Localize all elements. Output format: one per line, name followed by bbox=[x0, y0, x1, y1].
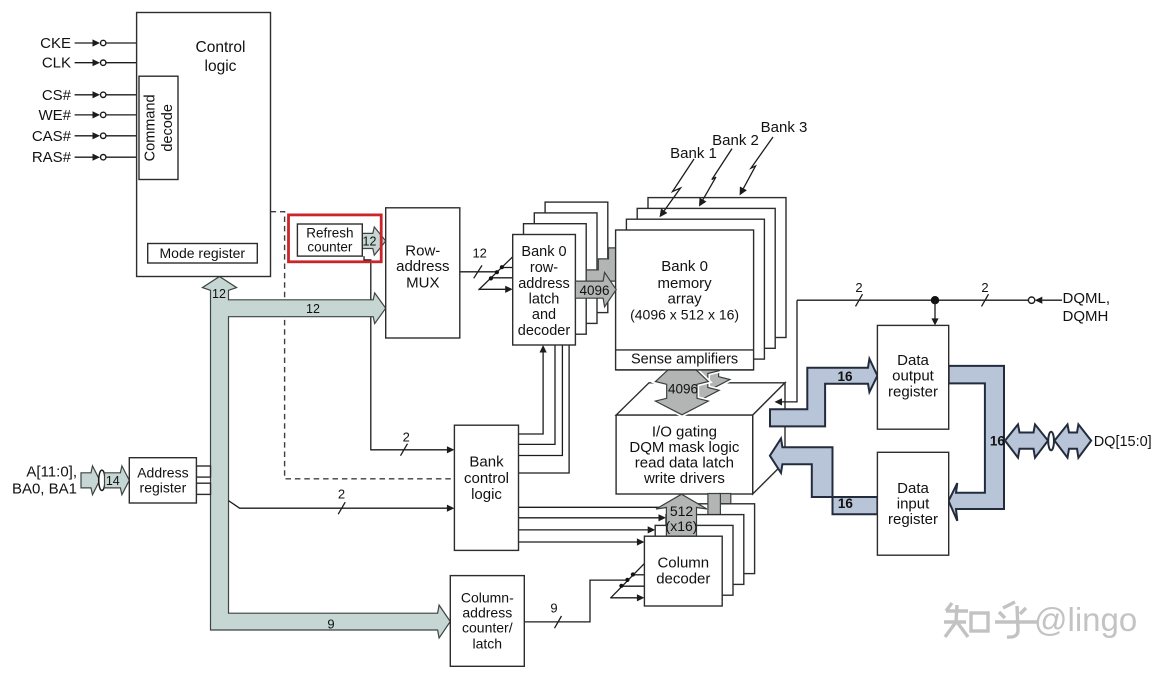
wire bank control to column decoder bank3 bbox=[519, 506, 673, 508]
wire 9-bit column counter to column fan bbox=[524, 580, 628, 622]
wire bank control to bank3 row latch bbox=[519, 345, 570, 473]
svg-text:address: address bbox=[462, 605, 512, 621]
svg-text:decoder: decoder bbox=[518, 323, 571, 339]
svg-text:Bank: Bank bbox=[469, 454, 504, 471]
svg-text:register: register bbox=[888, 511, 938, 528]
wire CAS# input bbox=[75, 132, 139, 139]
svg-text:memory: memory bbox=[658, 275, 713, 292]
address register box bbox=[129, 458, 196, 503]
Bank 1 callout bolt bbox=[664, 159, 694, 211]
row address fan: main 12 wire from MUX bbox=[460, 271, 497, 273]
teal 14 input arrow segment b into address register bbox=[105, 466, 130, 495]
svg-text:WE#: WE# bbox=[38, 107, 71, 124]
wire bank control to bank2 row latch bbox=[519, 345, 563, 456]
blue 16 bus data input register to I/O gating bbox=[770, 439, 878, 515]
svg-text:Column-: Column- bbox=[461, 590, 514, 606]
I/O gating 3D box right face bbox=[753, 383, 785, 494]
slash on 12 wire bbox=[474, 265, 482, 278]
gray 4096 bus bank2 sense amps down to I/O gating (hidden, halo) bbox=[677, 370, 730, 393]
svg-text:Bank 0: Bank 0 bbox=[661, 258, 708, 275]
svg-text:Bank 0: Bank 0 bbox=[521, 244, 566, 260]
data output register box bbox=[877, 325, 948, 429]
svg-text:BA0, BA1: BA0, BA1 bbox=[12, 481, 77, 498]
slash on BA wire bbox=[338, 502, 345, 514]
svg-text:12: 12 bbox=[212, 287, 226, 301]
teal 12 bus refresh counter to row MUX bbox=[362, 227, 385, 255]
svg-text:latch: latch bbox=[529, 292, 560, 308]
row fan diagonal bbox=[479, 257, 514, 291]
svg-text:4096: 4096 bbox=[668, 382, 698, 397]
wire RAS# input bbox=[75, 154, 139, 161]
svg-text:9: 9 bbox=[550, 600, 557, 615]
svg-text:16: 16 bbox=[838, 496, 854, 511]
wire DQM corner into I/O gating bbox=[781, 300, 797, 402]
gray hidden 512 bar bank1 bbox=[708, 494, 721, 524]
bank2 memory array box bbox=[637, 208, 775, 348]
wire bank control to column decoder bank0 bbox=[519, 541, 639, 543]
teal 14 input arrow segment a bbox=[81, 466, 100, 495]
svg-text:(4096 x 512 x 16): (4096 x 512 x 16) bbox=[630, 307, 739, 323]
mode register box bbox=[148, 244, 258, 264]
dashed mode-register path control logic to bank control logic bbox=[271, 212, 454, 479]
blue 16 bus I/O gating to data output register bbox=[770, 359, 877, 427]
DQ pad ellipse bbox=[1048, 432, 1054, 451]
svg-text:512: 512 bbox=[670, 503, 694, 519]
blue DQ bidirectional arrow left bbox=[1005, 424, 1048, 457]
svg-text:@lingo: @lingo bbox=[1034, 601, 1137, 638]
teal address bus trunk with up arrow into control logic, 12 branch to row MUX, 9 branch to column counter bbox=[202, 277, 450, 639]
wire 2-bit from refresh/row bus down to bank control logic bbox=[364, 256, 448, 450]
svg-text:array: array bbox=[668, 291, 703, 308]
column fan junction dots bbox=[619, 584, 623, 588]
svg-text:row-: row- bbox=[530, 260, 558, 276]
bank0 memory array box bbox=[616, 230, 754, 370]
wire CS# input bbox=[75, 91, 139, 98]
sense amplifiers divider bbox=[616, 349, 754, 351]
svg-text:output: output bbox=[892, 368, 935, 385]
svg-text:latch: latch bbox=[473, 636, 503, 652]
sense amplifiers bottom edge redraw bbox=[616, 369, 754, 371]
svg-text:control: control bbox=[464, 470, 509, 487]
svg-text:RAS#: RAS# bbox=[32, 149, 72, 166]
svg-text:14: 14 bbox=[106, 474, 120, 488]
svg-text:Control: Control bbox=[196, 39, 246, 56]
svg-text:Sense amplifiers: Sense amplifiers bbox=[631, 352, 738, 368]
svg-text:2: 2 bbox=[403, 430, 410, 445]
slash on DQM wire right bbox=[982, 294, 989, 306]
gray 4096 bus bank1 sense amps down to I/O gating (hidden, halo) bbox=[666, 370, 719, 404]
svg-text:DQML,: DQML, bbox=[1063, 290, 1111, 307]
watermark zhihu @lingo bbox=[944, 602, 1039, 637]
wire bank control to bank0 row latch (arrow up) bbox=[519, 351, 544, 434]
wire bank control to column decoder bank1 bbox=[519, 529, 650, 531]
slash on 2-bit wire bbox=[401, 444, 408, 456]
row fan stub upper bbox=[502, 267, 513, 269]
svg-text:decoder: decoder bbox=[656, 571, 710, 588]
bank2 column decoder box bbox=[666, 515, 744, 585]
svg-text:9: 9 bbox=[327, 616, 334, 631]
input buffer circle DQM bbox=[1028, 297, 1034, 303]
svg-text:12: 12 bbox=[306, 302, 320, 316]
column fan arrow into column decoder bbox=[610, 597, 638, 599]
label Bank 0 memory array bbox=[630, 258, 739, 323]
svg-text:2: 2 bbox=[981, 280, 988, 295]
svg-text:12: 12 bbox=[472, 245, 486, 260]
label Data input register bbox=[888, 480, 938, 528]
svg-text:Column: Column bbox=[657, 555, 709, 572]
svg-text:logic: logic bbox=[205, 58, 237, 75]
svg-text:MUX: MUX bbox=[406, 274, 439, 291]
svg-text:16: 16 bbox=[990, 434, 1006, 449]
refresh counter box bbox=[297, 224, 362, 256]
svg-text:Data: Data bbox=[897, 352, 929, 369]
Bank 2 callout bolt bbox=[703, 149, 732, 200]
Bank 3 callout bolt bbox=[743, 137, 773, 188]
column fan stub middle bbox=[622, 585, 645, 587]
wire bank control to bank1 row latch bbox=[519, 345, 556, 444]
connector tab address register to bus lower bbox=[196, 483, 210, 494]
I/O gating front face bbox=[616, 415, 753, 494]
svg-text:16: 16 bbox=[837, 369, 853, 384]
control logic box bbox=[137, 13, 271, 277]
buffer ellipse on address input bbox=[99, 470, 105, 490]
svg-text:4096: 4096 bbox=[579, 283, 609, 298]
svg-text:Address: Address bbox=[137, 465, 188, 481]
gray 4096 bus row latch to memory array bbox=[575, 272, 616, 306]
svg-text:decode: decode bbox=[160, 104, 176, 152]
svg-text:register: register bbox=[140, 480, 187, 496]
arrowhead DQM pointing left bbox=[1035, 297, 1043, 304]
svg-text:register: register bbox=[888, 383, 938, 400]
row-address MUX box bbox=[386, 208, 460, 338]
gray 4096 bus bank0 sense amps down to I/O gating (double headed, halo) bbox=[655, 370, 708, 415]
junction dot DQM bbox=[931, 296, 939, 304]
row fan arrow into bank0 latch bbox=[479, 288, 508, 290]
svg-text:CAS#: CAS# bbox=[32, 128, 72, 145]
bank0 column decoder box bbox=[644, 536, 722, 606]
svg-text:2: 2 bbox=[338, 487, 345, 502]
wire CLK input bbox=[75, 59, 137, 66]
svg-text:DQMH: DQMH bbox=[1063, 308, 1109, 325]
I/O gating 3D box top face bbox=[616, 383, 785, 415]
gray staircase of hidden 4096 buses banks 1-3 bbox=[586, 248, 615, 281]
bank3 memory array box bbox=[648, 198, 786, 338]
svg-text:input: input bbox=[897, 496, 930, 513]
bank1 column decoder box bbox=[655, 525, 733, 595]
svg-text:CKE: CKE bbox=[40, 35, 71, 52]
bank2 row-address latch box bbox=[534, 213, 597, 324]
svg-text:Command: Command bbox=[143, 94, 159, 161]
svg-text:Mode register: Mode register bbox=[160, 245, 246, 261]
svg-text:Data: Data bbox=[897, 480, 929, 497]
slash on DQM wire left bbox=[856, 294, 863, 306]
svg-text:Refresh: Refresh bbox=[306, 226, 353, 241]
bank0 row-address latch and decoder box bbox=[513, 235, 576, 346]
svg-text:read data latch: read data latch bbox=[635, 455, 734, 472]
svg-text:and: and bbox=[532, 307, 556, 323]
wire bank control to column decoder bank2 bbox=[519, 517, 661, 519]
label I/O gating block bbox=[629, 424, 740, 488]
svg-text:CS#: CS# bbox=[42, 87, 72, 104]
bank1 row-address latch box bbox=[524, 224, 587, 335]
gray hidden 512 bar bank2 bbox=[719, 494, 731, 514]
column-address counter/latch box bbox=[450, 576, 524, 667]
svg-text:Bank 3: Bank 3 bbox=[761, 119, 808, 136]
svg-text:write drivers: write drivers bbox=[643, 470, 725, 487]
column fan diagonal bbox=[610, 564, 644, 599]
column fan stub upper bbox=[633, 574, 644, 576]
bank3 row-address latch box bbox=[545, 202, 608, 313]
svg-text:12: 12 bbox=[363, 235, 377, 249]
blue DQ bidirectional arrow right bbox=[1055, 424, 1092, 457]
wire DQM down into data output register bbox=[934, 300, 936, 319]
bank1 memory array box bbox=[626, 219, 764, 359]
gray 512 x16 bus column decoder up to I/O gating bbox=[656, 494, 707, 536]
bank3 column decoder box bbox=[677, 504, 755, 574]
svg-text:counter: counter bbox=[307, 240, 353, 255]
wire 2-bit BA from address bus to bank control logic bbox=[229, 501, 449, 509]
svg-text:I/O gating: I/O gating bbox=[652, 424, 717, 441]
refresh counter red highlight bbox=[289, 215, 382, 262]
svg-text:(x16): (x16) bbox=[666, 518, 698, 534]
wire WE# input bbox=[75, 111, 139, 118]
svg-text:CLK: CLK bbox=[42, 55, 71, 72]
row fan junction dots bbox=[489, 276, 493, 280]
svg-text:address: address bbox=[396, 258, 449, 275]
svg-text:logic: logic bbox=[471, 486, 502, 503]
wire CKE input bbox=[75, 39, 137, 46]
svg-text:2: 2 bbox=[855, 280, 862, 295]
connector tab address register to bus upper bbox=[196, 466, 210, 477]
svg-text:DQM mask logic: DQM mask logic bbox=[629, 439, 740, 456]
svg-text:Bank 2: Bank 2 bbox=[712, 132, 759, 149]
svg-text:Bank 1: Bank 1 bbox=[670, 145, 717, 162]
svg-text:DQ[15:0]: DQ[15:0] bbox=[1094, 434, 1152, 450]
command decode box bbox=[139, 76, 178, 179]
bank control logic box bbox=[454, 425, 518, 550]
svg-text:address: address bbox=[518, 276, 570, 292]
svg-text:counter/: counter/ bbox=[462, 620, 513, 636]
blue 16 bus data output register to DQ channel and down into data input register bbox=[949, 366, 1004, 521]
data input register box bbox=[877, 452, 948, 555]
svg-text:A[11:0],: A[11:0], bbox=[26, 464, 77, 481]
label Data output register bbox=[888, 352, 938, 400]
row fan stub middle bbox=[491, 277, 513, 279]
wire DQML/DQMH input line bbox=[797, 299, 1028, 301]
slash on 9 wire bbox=[555, 616, 562, 628]
label Bank 0 row-address latch and decoder bbox=[518, 244, 571, 339]
